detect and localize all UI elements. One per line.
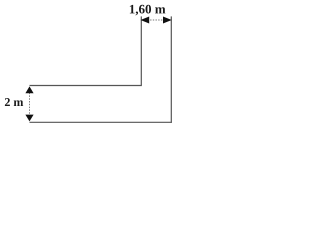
dimension shaft 1,60 m (dashed) bbox=[142, 19, 171, 21]
arrowhead down of 2 m dimension bbox=[25, 115, 33, 122]
label 1,60 m bbox=[130, 5, 166, 16]
wall line: inner horizontal (top of bottom corridor) bbox=[30, 85, 142, 87]
arrowhead up of 2 m dimension bbox=[25, 86, 33, 93]
arrowhead right of 1,60 m dimension bbox=[163, 17, 172, 24]
arrowhead left of 1,60 m dimension bbox=[141, 17, 150, 24]
wall line: bottom horizontal (bottom of corridor) bbox=[30, 121, 172, 123]
label 2 m bbox=[5, 98, 23, 106]
wall line: left side of vertical corridor bbox=[140, 16, 142, 85]
dimension shaft 2 m (dotted) bbox=[29, 87, 31, 121]
wall line: right side of vertical corridor bbox=[170, 16, 172, 122]
